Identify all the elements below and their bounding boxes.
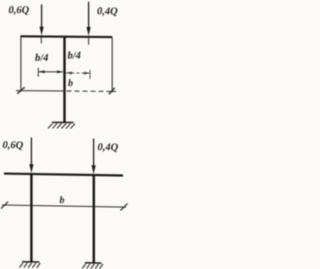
dimension line b (bottom figure): [1, 202, 128, 211]
dimension line b/4 right with arrows: [66, 70, 90, 79]
slash tick right: [109, 88, 115, 95]
load arrow P2=0,4Q (top right): [87, 2, 91, 36]
beam (bottom figure): [4, 172, 123, 176]
dimension line b/4 left with arrows: [38, 68, 63, 77]
left extension line from beam end: [20, 37, 22, 92]
extension stub at left load point: [40, 37, 42, 43]
svg-text:0,4Q: 0,4Q: [97, 6, 118, 17]
load arrow 0,6Q (bottom left): [29, 137, 33, 173]
ground (bottom right support): [82, 263, 103, 269]
right column (bottom figure): [93, 176, 95, 263]
svg-text:0,4Q: 0,4Q: [98, 142, 119, 153]
slash tick left end: [1, 202, 8, 209]
ground (bottom left support): [20, 262, 41, 268]
right extension line from beam end: [111, 38, 113, 93]
left column (bottom figure): [30, 175, 32, 262]
ground (top figure fixed support): [48, 122, 75, 128]
svg-text:0,6Q: 0,6Q: [3, 140, 24, 151]
svg-text:b: b: [68, 78, 73, 89]
svg-text:b/4: b/4: [68, 51, 81, 62]
svg-text:0,6Q: 0,6Q: [9, 5, 30, 16]
load arrow P1=0,6Q (top left): [40, 4, 44, 35]
svg-text:b: b: [60, 195, 65, 206]
beam (top figure cross-bar): [20, 35, 112, 38]
load arrow 0,4Q (bottom right): [92, 139, 96, 175]
slash tick left: [17, 87, 24, 94]
svg-text:b/4: b/4: [35, 53, 48, 64]
extension stub at right load point: [88, 38, 90, 45]
slash tick right end: [121, 203, 128, 210]
dimension line b (top figure): [16, 87, 116, 95]
central column (top figure): [63, 38, 65, 123]
